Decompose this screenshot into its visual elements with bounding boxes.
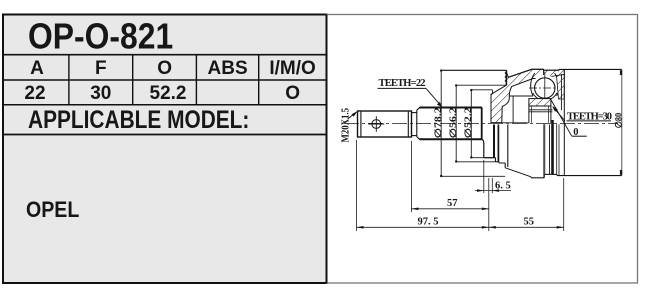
table column lines bbox=[68, 55, 70, 105]
bore edge verticals (bottom half, mouth) bbox=[493, 125, 495, 158]
spline cylinder TEETH=22 bbox=[417, 108, 482, 140]
bell mouth face (top half) bbox=[505, 70, 507, 85]
svg-text:6. 5: 6. 5 bbox=[495, 181, 511, 192]
centerline (main axis) bbox=[344, 122, 618, 124]
ball track shoulder line bbox=[512, 96, 514, 123]
svg-text:55: 55 bbox=[524, 217, 535, 228]
bell wall wedge right of cage bbox=[557, 75, 565, 100]
divider line bbox=[326, 15, 328, 284]
inner cavity boundary at centerline bbox=[491, 122, 529, 124]
dimension 97.5 bbox=[356, 140, 358, 231]
bottom profile: fillet, steps, slant, bands bbox=[481, 139, 484, 158]
bell wall section (hatched) bbox=[491, 69, 544, 123]
outer cylinder right face dia80 bbox=[621, 69, 623, 175]
svg-text:O: O bbox=[157, 58, 172, 79]
svg-text:ABS: ABS bbox=[208, 58, 248, 79]
svg-text:∅56.2: ∅56.2 bbox=[448, 107, 458, 139]
cage arcs bbox=[531, 73, 535, 96]
svg-text:F: F bbox=[95, 58, 107, 79]
card background: left gray table panel bbox=[3, 15, 327, 284]
groove verticals (top half, right of cage) bbox=[560, 74, 562, 110]
svg-text:52.2: 52.2 bbox=[150, 83, 187, 104]
neck between stub and spline bbox=[412, 112, 417, 114]
dia 56.2 dimension line bbox=[455, 85, 457, 162]
svg-text:TEETH=22: TEETH=22 bbox=[379, 78, 426, 89]
ball bbox=[535, 78, 555, 98]
svg-text:22: 22 bbox=[24, 83, 45, 104]
svg-text:∅52.2: ∅52.2 bbox=[463, 107, 473, 139]
svg-text:∅80: ∅80 bbox=[614, 112, 624, 128]
race seat line bbox=[510, 95, 534, 97]
dimension 6.5 bbox=[483, 160, 485, 193]
dia 52.2 dimension line bbox=[470, 90, 472, 158]
inner race bore with splines TEETH=30 bbox=[528, 106, 530, 123]
leader arrow for M20X1.5 bbox=[348, 112, 357, 119]
dia 78.2 dimension line bbox=[440, 70, 442, 176]
svg-text:97. 5: 97. 5 bbox=[418, 217, 439, 228]
svg-text:57: 57 bbox=[447, 198, 458, 209]
svg-text:OP-O-821: OP-O-821 bbox=[28, 17, 173, 57]
dimension 55 bbox=[563, 178, 565, 231]
svg-text:30: 30 bbox=[90, 83, 111, 104]
inner race (hatched) bbox=[529, 99, 551, 106]
svg-text:I/M/O: I/M/O bbox=[269, 58, 315, 79]
svg-text:O: O bbox=[285, 83, 300, 104]
drawing panel (white) bbox=[327, 15, 638, 284]
cage outer clearance (white) bbox=[532, 75, 558, 101]
dimension 57 bbox=[410, 141, 412, 212]
top profile: slant + bands bbox=[508, 69, 531, 77]
center hole circle bbox=[372, 120, 381, 129]
groove verticals cluster (bottom half) bbox=[543, 124, 545, 178]
svg-text:A: A bbox=[30, 58, 44, 79]
table row lines bbox=[4, 54, 327, 56]
bell wall top band right of ball bbox=[544, 69, 565, 77]
svg-text:OPEL: OPEL bbox=[26, 198, 80, 222]
svg-text:M20X1.5: M20X1.5 bbox=[341, 108, 352, 143]
cage bottom arc bbox=[533, 93, 557, 100]
svg-text:∅78.2: ∅78.2 bbox=[433, 107, 443, 139]
svg-text:APPLICABLE MODEL:: APPLICABLE MODEL: bbox=[28, 105, 249, 133]
stub shaft (threaded) bbox=[358, 111, 412, 137]
